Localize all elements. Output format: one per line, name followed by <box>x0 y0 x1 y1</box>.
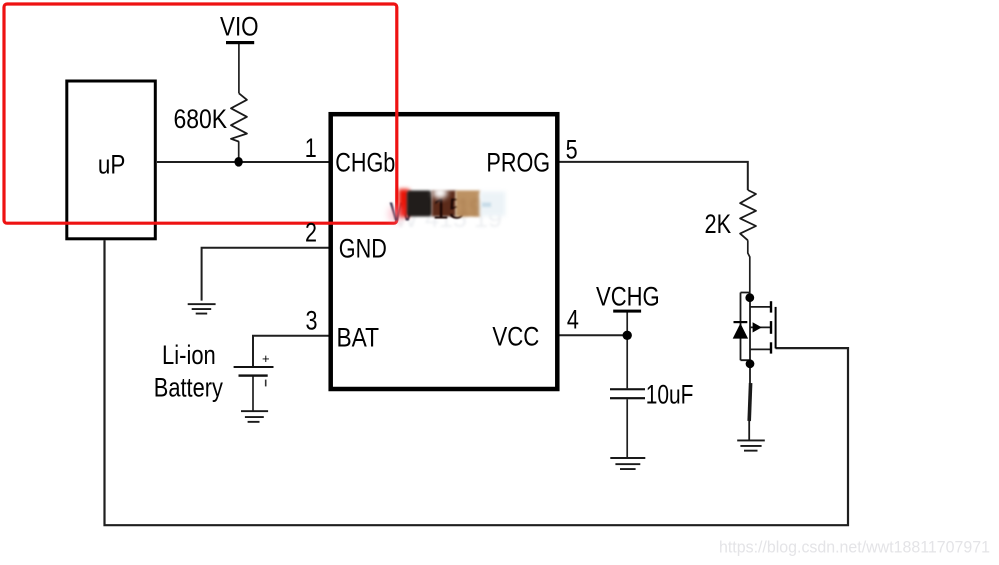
svg-text:19: 19 <box>457 194 483 220</box>
svg-text:https://blog.csdn.net/wwt18811: https://blog.csdn.net/wwt18811707971 <box>719 539 990 557</box>
svg-text:2K: 2K <box>705 209 732 239</box>
svg-text:5: 5 <box>566 134 578 164</box>
svg-text:CHGb: CHGb <box>335 147 395 177</box>
svg-text:GND: GND <box>339 233 387 263</box>
svg-text:VIO: VIO <box>220 12 259 42</box>
svg-text:10uF: 10uF <box>646 380 694 410</box>
svg-text:680K: 680K <box>174 104 228 134</box>
svg-text:Battery: Battery <box>154 372 223 402</box>
svg-text:2: 2 <box>305 218 317 248</box>
svg-text:PROG: PROG <box>486 147 550 177</box>
svg-text:+: + <box>262 351 270 366</box>
svg-text:VCC: VCC <box>492 322 539 352</box>
svg-text:Li-ion: Li-ion <box>162 340 216 370</box>
svg-text:BAT: BAT <box>337 323 380 353</box>
svg-text:uP: uP <box>98 149 126 179</box>
svg-text:1: 1 <box>305 133 317 163</box>
svg-text:4: 4 <box>567 304 579 334</box>
svg-text:VCHG: VCHG <box>596 282 660 312</box>
svg-text:3: 3 <box>306 305 318 335</box>
